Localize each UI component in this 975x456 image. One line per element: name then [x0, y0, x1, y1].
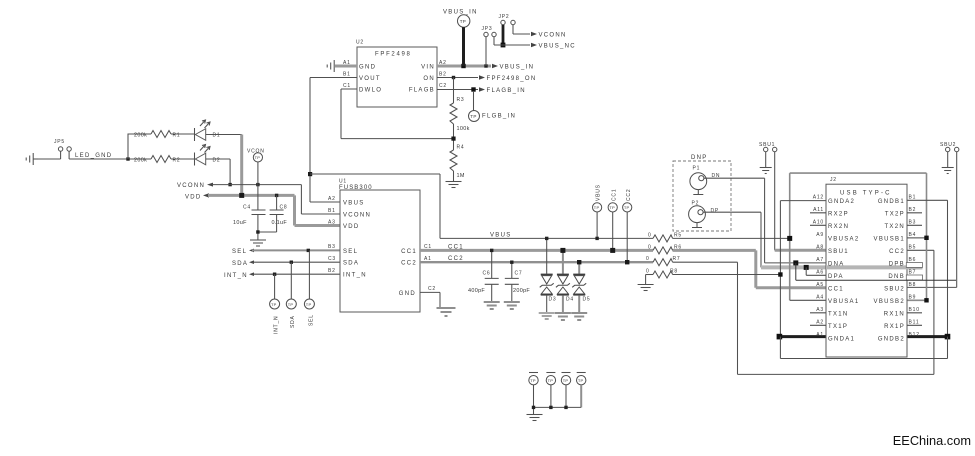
- svg-text:CC1: CC1: [611, 189, 617, 201]
- junction TP bus 3: [564, 406, 567, 409]
- svg-text:B1: B1: [328, 208, 336, 214]
- junction D5/CC2: [577, 260, 581, 264]
- svg-text:DPB: DPB: [889, 261, 905, 267]
- svg-text:VIN: VIN: [421, 64, 435, 70]
- testpoint TP VBUS: [593, 184, 602, 238]
- svg-text:B8: B8: [909, 282, 917, 288]
- svg-text:JP3: JP3: [482, 26, 493, 32]
- svg-text:LED_GND: LED_GND: [75, 153, 112, 159]
- svg-text:A8: A8: [816, 245, 824, 251]
- ground (C7): [504, 302, 520, 309]
- svg-text:GNDA1: GNDA1: [828, 336, 855, 342]
- testpoint TP gnd2: [546, 373, 555, 408]
- svg-text:TP: TP: [470, 114, 476, 119]
- svg-text:JP2: JP2: [499, 14, 510, 20]
- svg-text:VBUSA1: VBUSA1: [828, 299, 859, 305]
- svg-text:INT_N: INT_N: [343, 273, 367, 279]
- connector J2 body: [826, 177, 907, 357]
- J2 right pin names: [874, 199, 905, 342]
- svg-text:DP: DP: [711, 208, 720, 214]
- svg-text:C2: C2: [439, 83, 447, 89]
- svg-text:A1: A1: [816, 332, 824, 338]
- svg-text:CC1: CC1: [401, 249, 417, 255]
- wire DP: [703, 212, 761, 267]
- junction TP/CC2: [625, 260, 629, 264]
- svg-text:A2: A2: [816, 320, 824, 326]
- svg-text:INT_N: INT_N: [274, 316, 280, 334]
- junction D3/VBUS: [545, 237, 548, 240]
- capacitor C8: [270, 195, 288, 232]
- svg-text:VDD: VDD: [185, 195, 202, 201]
- wire CC2 net: [420, 261, 653, 263]
- svg-text:TP: TP: [530, 378, 536, 383]
- svg-text:B10: B10: [909, 307, 920, 313]
- ground (D3): [539, 313, 555, 319]
- svg-text:D2: D2: [213, 157, 221, 163]
- ground (SBU1): [760, 168, 772, 174]
- svg-text:TP: TP: [460, 19, 466, 24]
- svg-text:C4: C4: [243, 204, 251, 210]
- wire R8 to ground: [645, 275, 647, 285]
- wire VBUSB2 stub: [907, 299, 927, 301]
- svg-text:TX1P: TX1P: [828, 324, 848, 330]
- ground (left of JP5): [26, 153, 38, 165]
- svg-text:VOUT: VOUT: [359, 76, 381, 82]
- svg-text:B1: B1: [909, 195, 917, 201]
- svg-text:J2: J2: [830, 177, 837, 183]
- svg-text:VBUSB1: VBUSB1: [874, 236, 905, 242]
- wire DP to DPA: [806, 267, 826, 275]
- net label VDD: [185, 193, 209, 201]
- wire D2 to VCONN: [229, 159, 231, 185]
- svg-text:0: 0: [646, 256, 650, 262]
- svg-text:A3: A3: [816, 307, 824, 313]
- svg-text:200k: 200k: [134, 157, 147, 163]
- svg-text:A9: A9: [816, 232, 824, 238]
- ground (C6): [484, 302, 500, 309]
- TVS diode D5: [572, 262, 590, 312]
- svg-text:TP: TP: [563, 378, 569, 383]
- capacitor C6: [468, 250, 499, 301]
- wire VDD (thick): [208, 195, 340, 225]
- resistor R2: [134, 156, 195, 164]
- svg-text:INT_N: INT_N: [224, 273, 248, 279]
- U1 pin numbers: [328, 196, 436, 292]
- svg-text:U1: U1: [339, 179, 347, 185]
- wire GNDB1: [907, 200, 948, 336]
- svg-text:R6: R6: [674, 244, 682, 250]
- svg-text:TX2N: TX2N: [884, 224, 905, 230]
- svg-text:C3: C3: [328, 256, 336, 262]
- svg-text:0.1uF: 0.1uF: [272, 220, 288, 226]
- svg-text:TP: TP: [255, 155, 261, 160]
- svg-text:CC2: CC2: [626, 189, 632, 201]
- ground (TP row): [527, 415, 543, 421]
- svg-text:C1: C1: [343, 83, 351, 89]
- svg-text:TP: TP: [594, 205, 600, 210]
- wire JP3 left to VBUS_IN: [485, 37, 487, 66]
- svg-text:VCONN: VCONN: [343, 212, 371, 218]
- svg-text:200pF: 200pF: [513, 288, 530, 294]
- svg-text:CC1: CC1: [828, 286, 844, 292]
- svg-text:GND: GND: [399, 291, 416, 297]
- svg-text:C2: C2: [428, 286, 436, 292]
- resistor R7: [646, 256, 681, 266]
- wire DP bus (thick band): [761, 265, 923, 269]
- wire VBUS net: [440, 237, 790, 239]
- junction R8/GND tie: [778, 272, 782, 276]
- svg-text:VBUS_IN: VBUS_IN: [443, 10, 478, 16]
- svg-text:B11: B11: [909, 320, 920, 326]
- svg-text:GNDA2: GNDA2: [828, 199, 855, 205]
- svg-text:TP: TP: [271, 302, 277, 307]
- svg-text:A6: A6: [816, 270, 824, 276]
- svg-text:SDA: SDA: [343, 261, 359, 267]
- junction D2/VCONN: [228, 183, 231, 186]
- wire JP2 to VCONN: [513, 25, 530, 34]
- wire GND loop below J2: [780, 337, 947, 359]
- svg-text:B1: B1: [343, 72, 351, 78]
- testpoint TP CC2: [623, 189, 632, 263]
- wire VCONN: [212, 185, 340, 214]
- svg-text:U2: U2: [356, 40, 364, 46]
- testpoint TP SDA: [286, 262, 296, 328]
- junction SEL/TP: [307, 249, 310, 252]
- junction DP/DPA branch: [804, 265, 809, 270]
- svg-text:100k: 100k: [457, 126, 470, 132]
- svg-text:A3: A3: [328, 219, 336, 225]
- J2 left pin names: [828, 199, 859, 342]
- svg-text:1M: 1M: [457, 173, 465, 179]
- svg-text:FPF2498_ON: FPF2498_ON: [487, 76, 537, 82]
- svg-text:B2: B2: [328, 268, 336, 274]
- U2 pin names: [359, 64, 435, 93]
- svg-text:VBUS_IN: VBUS_IN: [500, 65, 535, 71]
- LED D2: [195, 145, 231, 166]
- svg-text:VBUSB2: VBUSB2: [874, 299, 905, 305]
- wire VBUS loop around J2: [790, 173, 927, 300]
- resistor R1: [134, 131, 195, 139]
- testpoint TP INT_N: [270, 274, 280, 334]
- svg-text:R1: R1: [173, 132, 181, 138]
- svg-text:0: 0: [648, 244, 652, 250]
- J2 unconnected stubs right: [907, 213, 922, 325]
- svg-text:DNA: DNA: [828, 261, 845, 267]
- svg-text:JP5: JP5: [54, 139, 65, 145]
- svg-text:FLAGB: FLAGB: [409, 88, 435, 94]
- svg-text:R5: R5: [674, 232, 682, 238]
- wire DP band through J2: [826, 265, 923, 269]
- svg-text:R3: R3: [457, 97, 465, 103]
- svg-text:FUSB300: FUSB300: [339, 185, 373, 191]
- svg-text:SDA: SDA: [232, 261, 248, 267]
- net label VCONN: [177, 183, 213, 190]
- junction VBUS/loop: [787, 236, 792, 241]
- svg-text:TP: TP: [578, 378, 584, 383]
- svg-text:0: 0: [648, 232, 652, 238]
- svg-text:TP: TP: [624, 205, 630, 210]
- jumper SBU2: [940, 142, 959, 152]
- junction TP/CC1: [610, 248, 615, 253]
- wire VBUSB1 stub: [907, 237, 927, 239]
- svg-text:B3: B3: [328, 244, 336, 250]
- wire GNDA2 stub: [780, 200, 826, 202]
- svg-text:TP: TP: [306, 302, 312, 307]
- svg-text:A12: A12: [813, 195, 824, 201]
- svg-text:0: 0: [646, 269, 650, 275]
- jumper JP2: [499, 14, 516, 25]
- wire U1 GND: [420, 292, 440, 307]
- testpoint TP FLGB_IN: [469, 91, 517, 122]
- wire JP3 right to VBUS_NC: [494, 37, 530, 45]
- svg-text:SBU2: SBU2: [884, 286, 905, 292]
- junction VBUSB2: [924, 298, 928, 302]
- svg-text:R8: R8: [670, 269, 678, 275]
- ground bus GNDB2 (thick black): [907, 335, 948, 338]
- junction GND bus right: [945, 334, 951, 340]
- svg-text:USB TYP-C: USB TYP-C: [840, 191, 892, 197]
- svg-text:SEL: SEL: [308, 314, 314, 326]
- wire SBU2 net: [907, 152, 957, 288]
- wire VOUT to VBUS: [310, 174, 440, 238]
- junction caps: [256, 230, 259, 233]
- jumper SBU1: [759, 142, 777, 152]
- junction INT_N/TP: [273, 273, 276, 276]
- wire JP2 to VBUS_NC (thick black): [502, 25, 505, 45]
- net label SEL: [232, 249, 254, 255]
- svg-text:RX2P: RX2P: [828, 211, 849, 217]
- svg-text:GNDB2: GNDB2: [878, 336, 905, 342]
- svg-text:VDD: VDD: [343, 224, 360, 230]
- capacitor C7: [505, 262, 531, 301]
- resistor R3: [450, 76, 470, 150]
- svg-text:B6: B6: [909, 257, 917, 263]
- svg-text:B9: B9: [909, 295, 917, 301]
- junction VIN/JP3: [484, 64, 487, 67]
- wire SDA: [252, 261, 340, 263]
- svg-text:R2: R2: [173, 157, 181, 163]
- svg-text:DWLO: DWLO: [359, 87, 382, 93]
- svg-text:400pF: 400pF: [468, 288, 485, 294]
- ground (R8): [638, 285, 654, 291]
- svg-text:A11: A11: [813, 207, 824, 213]
- testpoint TP SEL: [304, 250, 314, 326]
- svg-text:C8: C8: [280, 204, 288, 210]
- pin pad B6 (open): [906, 263, 922, 268]
- svg-text:CC2: CC2: [889, 249, 905, 255]
- net label VCONN (top): [531, 32, 567, 39]
- svg-text:D5: D5: [583, 297, 591, 303]
- svg-text:D1: D1: [213, 132, 221, 138]
- wire U2 VOUT: [310, 78, 357, 203]
- svg-text:VBUSA2: VBUSA2: [828, 236, 859, 242]
- svg-text:TP: TP: [288, 302, 294, 307]
- wire U2 FLAGB: [437, 89, 478, 91]
- wire LED_GND net: [38, 158, 151, 160]
- ground (SBU2): [942, 168, 954, 174]
- junction D4/CC1: [560, 248, 565, 253]
- junction VOUT/VBUS: [308, 172, 312, 176]
- svg-text:A7: A7: [816, 257, 824, 263]
- ground bus GNDA1 (thick black): [779, 335, 826, 338]
- junction R3/R4/DWLO: [451, 137, 455, 141]
- wire VBUS_IN (U2 VIN, thick): [437, 65, 491, 68]
- svg-text:RX1N: RX1N: [884, 311, 905, 317]
- junction VDD/C8: [275, 194, 278, 197]
- svg-text:CC2: CC2: [448, 256, 464, 262]
- ground (C4/C8): [250, 240, 266, 246]
- svg-text:A4: A4: [816, 295, 824, 301]
- IC U1 FUSB300 body: [339, 179, 420, 313]
- svg-text:10uF: 10uF: [233, 220, 247, 226]
- svg-text:FPF2498: FPF2498: [375, 52, 412, 58]
- wire TP ground bus: [534, 406, 582, 408]
- ground (D5): [571, 313, 587, 320]
- svg-text:P1: P1: [693, 166, 701, 172]
- junction JP2/VBUS_NC: [501, 43, 506, 48]
- J2 left pin numbers: [813, 195, 824, 339]
- svg-text:VBUS: VBUS: [343, 200, 365, 206]
- net label VBUS_IN: [492, 64, 534, 71]
- wire INT_N: [252, 273, 340, 275]
- svg-text:GNDB1: GNDB1: [878, 199, 905, 205]
- jumper JP5: [54, 139, 71, 159]
- ground (R4): [446, 182, 462, 188]
- wire U2 ON: [437, 77, 478, 79]
- svg-text:FLGB_IN: FLGB_IN: [482, 114, 516, 120]
- svg-text:ON: ON: [423, 76, 435, 82]
- resistor R4: [450, 145, 465, 182]
- wire SBU1 net: [774, 152, 776, 251]
- resistor R6: [648, 244, 682, 254]
- testpoint TP VBUS_IN: [443, 10, 478, 67]
- svg-text:SDA: SDA: [290, 315, 296, 328]
- svg-text:B12: B12: [909, 332, 920, 338]
- junction VIN/TP: [461, 64, 465, 68]
- resistor R5: [648, 232, 682, 242]
- TVS diode D4: [556, 250, 574, 312]
- wire DN: [704, 178, 826, 263]
- wire DN to DNB (crossing): [795, 263, 797, 280]
- wire U2 DWLO: [341, 89, 454, 139]
- junction FLAGB/TP: [471, 87, 475, 91]
- svg-text:A5: A5: [816, 282, 824, 288]
- ground (D4): [555, 313, 571, 320]
- svg-text:DNB: DNB: [888, 274, 905, 280]
- svg-text:CC2: CC2: [401, 261, 417, 267]
- svg-text:TP: TP: [609, 205, 615, 210]
- DNP box: [673, 155, 731, 231]
- wire CC1 net (thick): [420, 250, 826, 287]
- wire GNDA2 vertical: [779, 201, 781, 337]
- svg-text:FLAGB_IN: FLAGB_IN: [487, 88, 526, 94]
- svg-text:SEL: SEL: [232, 249, 247, 255]
- svg-text:VBUS: VBUS: [490, 232, 512, 238]
- testpoint TP VCON: [247, 149, 265, 211]
- net label FLAGB_IN: [479, 87, 526, 94]
- pin pad B7 (open): [906, 275, 922, 280]
- TVS diode D3: [540, 238, 557, 312]
- svg-text:B4: B4: [909, 232, 917, 238]
- svg-text:VCONN: VCONN: [177, 183, 205, 189]
- junction TP/VBUS: [595, 237, 598, 240]
- svg-text:VBUS: VBUS: [596, 184, 602, 201]
- testpoint TP CC1: [608, 189, 617, 251]
- svg-text:R7: R7: [673, 256, 681, 262]
- wire SBU2 to ground: [947, 152, 949, 167]
- ground (U1 GND, grey): [437, 308, 456, 316]
- jumper JP3: [482, 26, 497, 37]
- svg-text:DPA: DPA: [828, 274, 844, 280]
- junction VBUSB1: [924, 236, 928, 240]
- svg-text:A10: A10: [813, 220, 824, 226]
- svg-text:TX2P: TX2P: [885, 211, 905, 217]
- J2 unconnected stubs left: [810, 213, 826, 325]
- svg-text:B2: B2: [439, 72, 447, 78]
- svg-text:RX1P: RX1P: [884, 324, 905, 330]
- capacitor C4: [233, 204, 266, 232]
- coax connector P1: [690, 166, 720, 195]
- wire to R1: [128, 134, 151, 159]
- testpoint TP gnd1: [529, 373, 538, 415]
- testpoint TP gnd3: [561, 373, 570, 408]
- svg-text:B3: B3: [909, 220, 917, 226]
- svg-text:D4: D4: [566, 297, 574, 303]
- wire SEL: [252, 249, 340, 251]
- svg-text:SBU1: SBU1: [828, 249, 849, 255]
- junction C7/CC2: [510, 261, 513, 264]
- svg-text:VBUS_NC: VBUS_NC: [539, 44, 576, 50]
- svg-text:SEL: SEL: [343, 249, 358, 255]
- svg-text:RX2N: RX2N: [828, 224, 849, 230]
- svg-text:VCONN: VCONN: [539, 33, 567, 39]
- svg-text:R4: R4: [457, 145, 465, 151]
- svg-text:D3: D3: [549, 297, 557, 303]
- ground (U2 GND pin): [327, 60, 357, 72]
- junction SDA/TP: [290, 261, 293, 264]
- junction DN/DNB branch: [793, 260, 798, 265]
- junction VDD/D1: [239, 193, 244, 198]
- wire SBU1 to ground: [765, 152, 767, 167]
- svg-text:B5: B5: [909, 245, 917, 251]
- svg-text:200k: 200k: [134, 132, 147, 138]
- svg-text:B2: B2: [909, 207, 917, 213]
- watermark EEChina.com: [893, 433, 971, 448]
- svg-text:SBU1: SBU1: [759, 142, 775, 148]
- junction GND bus left: [777, 334, 783, 340]
- op-amp U2 FPF2498 body: [356, 40, 437, 108]
- junction TP bus 1: [532, 406, 535, 409]
- svg-text:A2: A2: [328, 196, 336, 202]
- junction LED_GND: [126, 157, 129, 160]
- net label SDA: [232, 260, 254, 267]
- svg-text:DNP: DNP: [691, 155, 708, 161]
- junction C6/CC1: [490, 249, 493, 252]
- J2 right pin numbers: [909, 195, 920, 339]
- junction VCONN/TP: [256, 183, 259, 186]
- svg-text:C7: C7: [515, 271, 523, 277]
- net label VBUS_NC: [531, 43, 576, 50]
- net label FPF2498_ON: [479, 75, 537, 82]
- svg-text:TP: TP: [548, 378, 554, 383]
- testpoint TP gnd4: [577, 373, 586, 408]
- wire D1 to VDD (thick): [240, 135, 243, 196]
- svg-text:TX1N: TX1N: [828, 311, 849, 317]
- U2 pin numbers: [343, 60, 447, 89]
- net label INT_N: [224, 272, 254, 279]
- coax connector P2: [689, 201, 719, 228]
- wire cap commons to ground: [258, 232, 277, 240]
